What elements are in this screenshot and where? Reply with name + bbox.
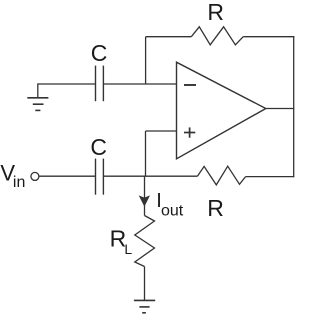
arrow Iout (current direction) [139, 195, 150, 206]
svg-text:out: out [161, 202, 184, 219]
wire GND1 to C1 left plate [38, 83, 96, 85]
ground GND1 (top-left) [27, 83, 48, 110]
svg-text:R: R [207, 0, 224, 25]
wire C1 right plate to op-amp inverting input [103, 83, 176, 85]
wire node B down to RL (Iout branch) [144, 176, 146, 215]
wire right vertical (output net) [293, 36, 295, 177]
wire top horizontal to R1 [146, 36, 192, 38]
svg-text:C: C [90, 134, 107, 160]
svg-text:R: R [207, 195, 224, 221]
wire RL to GND2 [144, 267, 146, 301]
op-amp U1 inverting pin mark "-" [184, 84, 196, 86]
wire C2 right plate through node B to R2 [103, 175, 197, 177]
resistor R1 (feedback, top) [191, 27, 243, 45]
wire Vin terminal to C2 left plate [39, 175, 96, 177]
resistor RL (load) [135, 216, 155, 267]
wire R1 to top-right corner [243, 36, 294, 38]
capacitor C2 (input) [96, 159, 104, 195]
resistor R2 (bottom) [197, 166, 245, 185]
terminal Vin (open circle) [31, 172, 39, 180]
wire op-amp output [266, 108, 294, 110]
capacitor C1 (top) [96, 66, 104, 102]
wire R2 to bottom-right corner [246, 176, 295, 178]
svg-text:C: C [91, 40, 108, 66]
ground GND2 (bottom) [134, 300, 155, 312]
wire feedback vertical (node A to top wire) [145, 37, 147, 84]
svg-text:L: L [124, 241, 132, 257]
op-amp U1 non-inverting pin mark "+" [184, 127, 195, 137]
wire op-amp non-inverting input horizontal [146, 130, 177, 132]
op-amp U1 [177, 62, 266, 159]
wire non-inverting input vertical down to node B [145, 131, 147, 176]
svg-text:in: in [13, 174, 25, 191]
